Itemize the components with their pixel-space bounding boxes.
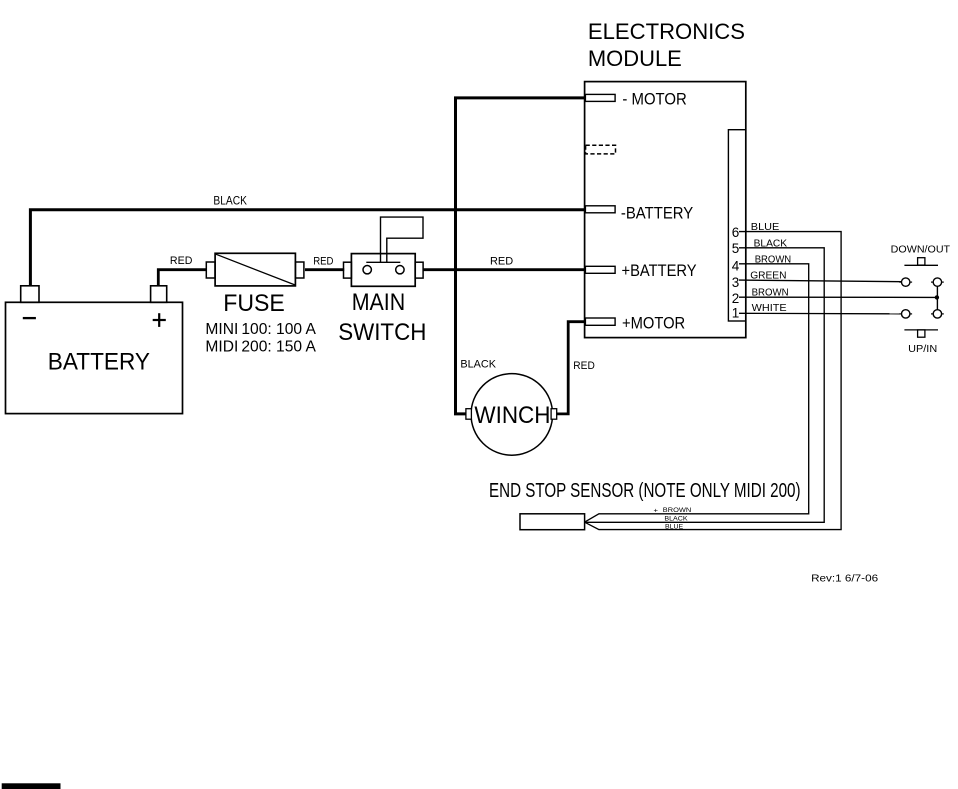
svg-text:- MOTOR: - MOTOR — [622, 90, 686, 109]
svg-text:ELECTRONICS: ELECTRONICS — [588, 19, 745, 44]
wire pin2 BROWN to rocker switch — [739, 296, 937, 298]
wire main switch to +BATTERY (red) — [423, 268, 585, 271]
svg-text:DOWN/OUT: DOWN/OUT — [891, 243, 951, 255]
rocker switch contact bottom-left — [899, 310, 912, 318]
svg-text:BLACK: BLACK — [664, 515, 688, 522]
svg-text:RED: RED — [313, 255, 333, 267]
wire -MOTOR to winch (black) — [456, 98, 586, 414]
wire battery minus to -BATTERY (black) — [30, 210, 585, 286]
rocker switch S2 down button — [904, 258, 938, 266]
svg-text:-BATTERY: -BATTERY — [621, 203, 693, 222]
svg-text:6: 6 — [732, 225, 740, 240]
svg-text:BLACK: BLACK — [754, 237, 788, 249]
svg-text:BLACK: BLACK — [213, 195, 247, 207]
rocker switch contact top-left — [899, 278, 912, 286]
battery minus sign — [23, 317, 36, 319]
svg-text:5: 5 — [732, 241, 740, 256]
svg-text:MODULE: MODULE — [588, 46, 682, 71]
svg-text:MIDI 200: 150 A: MIDI 200: 150 A — [205, 339, 316, 356]
main switch S1 — [344, 254, 424, 287]
svg-text:BROWN: BROWN — [755, 253, 792, 265]
svg-text:END STOP SENSOR (NOTE ONLY MID: END STOP SENSOR (NOTE ONLY MIDI 200) — [489, 480, 801, 502]
wire pin6 BLUE to sensor — [585, 232, 841, 530]
svg-text:3: 3 — [732, 275, 740, 290]
wire battery plus to fuse (red) — [158, 270, 206, 287]
svg-text:WINCH: WINCH — [474, 402, 550, 429]
svg-text:BROWN: BROWN — [663, 507, 692, 514]
battery plus sign — [153, 313, 166, 327]
svg-text:FUSE: FUSE — [223, 290, 284, 317]
terminal +BATTERY — [585, 266, 615, 273]
battery negative terminal — [21, 286, 39, 303]
svg-text:RED: RED — [490, 255, 513, 267]
svg-text:BLUE: BLUE — [665, 523, 684, 530]
end stop sensor body — [520, 514, 585, 530]
fuse F1 — [206, 253, 304, 286]
svg-text:BLUE: BLUE — [751, 221, 780, 233]
rocker switch contact bottom-right — [931, 310, 944, 318]
wire pin5 BLACK to sensor — [585, 248, 824, 523]
page corner mark — [2, 783, 61, 789]
svg-text:BATTERY: BATTERY — [48, 348, 150, 375]
svg-text:1: 1 — [732, 306, 740, 321]
svg-text:Rev:1 6/7-06: Rev:1 6/7-06 — [811, 573, 878, 584]
terminal +MOTOR — [585, 318, 615, 325]
rocker switch contact top-right — [931, 278, 944, 286]
connector J1 — [728, 130, 745, 321]
electronics module U1 — [585, 82, 746, 338]
wire fuse to main switch (red) — [305, 268, 344, 271]
svg-text:4: 4 — [732, 258, 740, 273]
svg-text:BROWN: BROWN — [752, 286, 789, 298]
terminal -BATTERY — [585, 206, 615, 213]
svg-text:UP/IN: UP/IN — [908, 343, 937, 355]
wire pin1 WHITE to rocker switch — [739, 312, 902, 315]
wire winch to +MOTOR (red) — [557, 322, 586, 414]
rocker switch link wire — [936, 286, 938, 309]
svg-text:BLACK: BLACK — [460, 358, 496, 370]
battery B1 — [6, 302, 183, 413]
svg-text:2: 2 — [732, 291, 740, 306]
svg-text:GREEN: GREEN — [750, 270, 786, 282]
svg-text:WHITE: WHITE — [752, 302, 787, 314]
svg-text:+BATTERY: +BATTERY — [622, 261, 697, 280]
wire pin3 GREEN to rocker switch — [739, 280, 902, 282]
svg-text:+: + — [654, 507, 659, 514]
main switch key lever — [381, 217, 424, 262]
junction dot — [935, 295, 939, 299]
svg-text:RED: RED — [573, 360, 595, 372]
svg-text:RED: RED — [170, 255, 193, 267]
terminal -MOTOR — [585, 94, 615, 101]
svg-text:MINI 100: 100 A: MINI 100: 100 A — [205, 321, 316, 338]
wire pin4 BROWN to sensor — [585, 264, 809, 522]
svg-text:+MOTOR: +MOTOR — [622, 313, 685, 332]
rocker switch S2 up button — [904, 330, 938, 337]
svg-text:MAIN: MAIN — [352, 289, 406, 316]
svg-text:SWITCH: SWITCH — [338, 319, 426, 346]
terminal aux (dashed) — [586, 145, 616, 154]
battery positive terminal — [151, 286, 167, 303]
winch motor M1 — [466, 374, 557, 456]
